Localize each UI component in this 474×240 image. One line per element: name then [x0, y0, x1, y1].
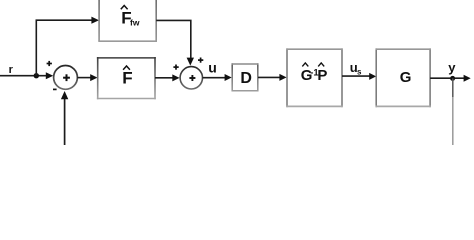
svg-text:y: y: [448, 60, 456, 75]
arrowhead into block GinvP: [279, 74, 286, 81]
wire block F to sum2: [155, 77, 173, 79]
plus sign inside S2: [189, 75, 195, 81]
arrowhead into sum1 from left: [46, 72, 53, 79]
arrowhead into block D: [225, 74, 232, 81]
wire D to block GinvP: [258, 76, 280, 78]
svg-text:r: r: [9, 64, 14, 76]
svg-text:D: D: [240, 70, 252, 87]
block Ffw (top edge cropped above image): [98, 0, 157, 41]
svg-text:fw: fw: [130, 18, 140, 28]
arrowhead into block G: [369, 73, 376, 80]
svg-text:u: u: [208, 60, 217, 76]
wire feedback into sum1 from bottom: [64, 99, 66, 145]
block D: [232, 63, 259, 91]
node y output junction dot: [450, 76, 455, 81]
svg-text:s: s: [357, 67, 362, 76]
arrowhead into sum2 from top: [187, 58, 194, 66]
block G: [376, 48, 431, 107]
minus sign at S1 feedback input: [53, 88, 57, 90]
wire feedback down from output node: [452, 78, 454, 145]
arrowhead into sum2 from left: [172, 74, 179, 81]
block F: [97, 57, 156, 99]
wire branch up to feedforward block: [36, 20, 92, 75]
label GinvP: [301, 63, 328, 84]
svg-text:G: G: [400, 69, 412, 86]
arrowhead into sum1 from bottom: [61, 91, 68, 99]
wire GinvP to block G: [342, 75, 370, 77]
summing junction S2: [180, 67, 202, 89]
svg-text:F: F: [122, 69, 132, 88]
summing junction S1: [54, 66, 78, 90]
plus sign at S1 reference input: [47, 61, 52, 66]
block GinvP: [286, 48, 342, 107]
plus sign at S2 left input: [173, 65, 178, 70]
arrowhead into block F: [90, 74, 97, 81]
wire sum1 to block F: [77, 77, 91, 79]
svg-text:P: P: [317, 67, 327, 84]
arrowhead output y: [464, 75, 471, 82]
node branch junction dot: [34, 73, 39, 78]
wire r input: [0, 75, 47, 77]
label u_s: [350, 60, 362, 76]
arrowhead into block Ffw: [91, 17, 99, 24]
wire Ffw output to sum2: [156, 20, 191, 59]
wire sum2 to block D: [203, 77, 226, 79]
label F hat: [122, 66, 132, 88]
plus sign inside S1: [63, 74, 70, 81]
plus sign at S2 top input: [198, 58, 203, 63]
wire G output: [430, 77, 464, 79]
label F_fw: [121, 6, 140, 28]
